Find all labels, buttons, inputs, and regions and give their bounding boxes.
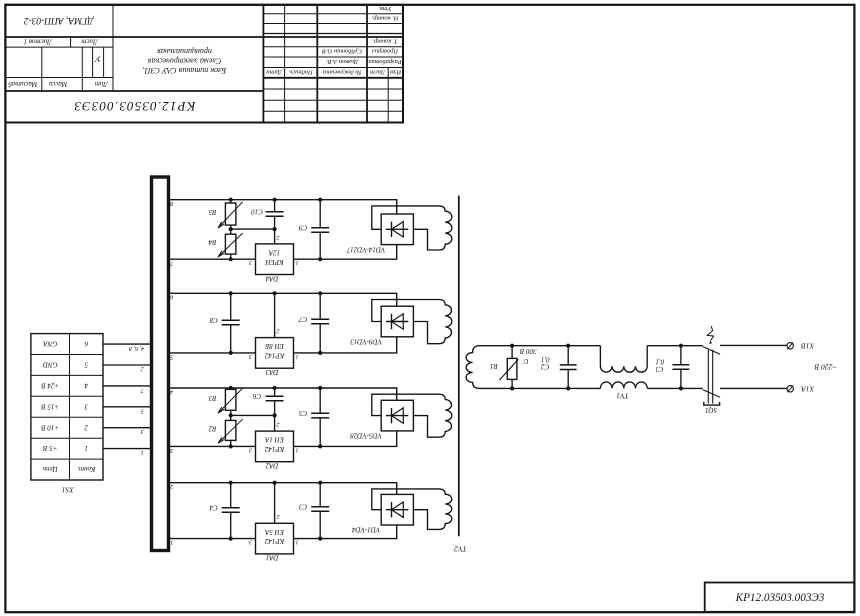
junction divider bottom [229, 444, 233, 448]
secondary winding TV2.1 with bridge AC wires [372, 489, 452, 530]
svg-text:GND: GND [43, 361, 58, 369]
capacitor C3 with leads [311, 483, 329, 539]
bus (wire harness) [152, 177, 169, 551]
svg-text:3: 3 [249, 538, 253, 544]
svg-text:Листов 1: Листов 1 [24, 38, 53, 46]
wire rail 3 (channel 2 bottom) right segment [294, 431, 397, 447]
wire rail 8 (channel 4 top) [169, 200, 397, 214]
svg-text:1: 1 [296, 353, 299, 359]
svg-text:КР12.03503.003Э3: КР12.03503.003Э3 [735, 592, 825, 604]
bridge rectifier VD1-VD4 [381, 494, 413, 525]
svg-text:VD14-VD217: VD14-VD217 [346, 245, 385, 253]
trimmer resistor R3 [218, 388, 243, 413]
svg-text:Лист: Лист [81, 38, 98, 46]
svg-text:5: 5 [170, 353, 173, 360]
svg-text:ДГМА, АПП-03-2: ДГМА, АПП-03-2 [23, 15, 94, 25]
svg-text:3: 3 [249, 259, 253, 265]
varistor R1 [499, 346, 518, 389]
svg-text:КР142: КР142 [264, 537, 285, 545]
svg-text:XS1: XS1 [62, 485, 75, 494]
svg-text:Утв.: Утв. [378, 5, 392, 12]
capacitor C8 with leads [222, 293, 240, 353]
wire primary bottom (segment 2) [647, 387, 703, 389]
svg-text:3: 3 [170, 447, 174, 454]
voltage regulator DA4 [256, 244, 294, 275]
svg-text:Субботин О.В: Субботин О.В [322, 48, 362, 55]
connector XS1 table [31, 334, 103, 480]
secondary winding TV2.3 with bridge AC wires [372, 300, 452, 344]
svg-text:2: 2 [277, 328, 280, 334]
svg-text:Разработал: Разработал [368, 58, 402, 65]
voltage regulator DA2 [256, 431, 294, 462]
svg-text:7: 7 [140, 386, 144, 393]
svg-text:3: 3 [84, 402, 89, 410]
svg-text:C6: C6 [252, 392, 261, 400]
junction node pin2 [273, 413, 277, 417]
svg-text:R3: R3 [208, 394, 217, 402]
bridge rectifier VD14-VD217 [381, 214, 413, 245]
voltage regulator DA1 [256, 523, 294, 554]
terminal X1A [787, 385, 793, 392]
svg-text:Дьякон А.В.: Дьякон А.В. [326, 58, 360, 65]
capacitor C4 with leads [222, 483, 240, 539]
svg-text:DA3: DA3 [265, 368, 279, 376]
svg-text:C3: C3 [298, 503, 307, 511]
junction C7 top [318, 291, 322, 295]
svg-text:Дата: Дата [266, 68, 282, 75]
capacitor C7 with leads [311, 293, 329, 353]
capacitor C1 [673, 346, 690, 389]
svg-text:Блок питания САУ СЗП,: Блок питания САУ СЗП, [143, 66, 227, 75]
svg-text:КРЕН: КРЕН [264, 258, 284, 266]
wire primary top to switch (segment 1) [479, 345, 601, 347]
svg-text:3: 3 [249, 446, 253, 452]
wire rail 7 (channel 4 bottom) left segment [169, 258, 256, 260]
svg-text:Масштаб: Масштаб [8, 80, 39, 87]
junction pin2 top [273, 481, 277, 485]
svg-text:№ документа: № документа [323, 68, 362, 75]
svg-text:R1: R1 [490, 362, 499, 370]
wire XS1 to bus (net 1) [103, 448, 152, 450]
switch SQ1 [703, 347, 720, 406]
svg-text:C5: C5 [298, 409, 307, 417]
primary winding TV2 [466, 346, 479, 389]
svg-text:5: 5 [141, 407, 144, 414]
svg-text:Лит: Лит [95, 80, 109, 87]
svg-text:+10 В: +10 В [41, 423, 59, 431]
pin 2 wire of DA4 with C10 leads [274, 200, 276, 244]
svg-text:TV1: TV1 [616, 392, 629, 401]
svg-text:ЕН 8Б: ЕН 8Б [265, 342, 285, 350]
svg-text:У: У [94, 55, 101, 65]
capacitor C2 [560, 346, 577, 389]
node wire divider-to-pin2 [231, 228, 275, 230]
secondary winding TV2.2 with bridge AC wires [372, 394, 452, 437]
junction C3 bottom [318, 537, 322, 541]
wire rail 1 (channel 1 bottom) right segment [294, 525, 397, 539]
svg-text:КР12.03503.003Э3: КР12.03503.003Э3 [73, 99, 196, 114]
svg-text:Цепь: Цепь [43, 465, 59, 473]
wire XS1 to bus (net 5) [103, 406, 152, 408]
svg-text:6: 6 [84, 340, 88, 348]
svg-text:2: 2 [141, 366, 144, 373]
junction C8 top [229, 291, 233, 295]
junction C4 bottom [229, 537, 233, 541]
svg-text:SQ1: SQ1 [705, 406, 717, 414]
stamp box [705, 583, 855, 612]
junction C5 top [318, 386, 322, 390]
trimmer resistor R2 [218, 419, 243, 443]
svg-text:+5 В: +5 В [42, 444, 57, 452]
bridge rectifier VD5-VD28 [381, 400, 413, 431]
junction pin2 top [273, 291, 277, 295]
junction C6 top [273, 386, 277, 390]
junction C9 bottom [318, 257, 322, 261]
junction R1 bottom [510, 386, 514, 390]
svg-text:C9: C9 [298, 224, 307, 232]
svg-text:2: 2 [170, 483, 173, 490]
svg-text:X1A: X1A [801, 384, 815, 393]
svg-text:2: 2 [277, 513, 280, 519]
wire divider chain [230, 200, 232, 260]
junction C7 bottom [318, 351, 322, 355]
junction divider top [229, 386, 233, 390]
svg-text:Т. контр.: Т. контр. [372, 38, 398, 45]
junction C2 bottom [566, 386, 570, 390]
capacitor C10 [266, 212, 284, 217]
junction C5 bottom [318, 444, 322, 448]
svg-text:R5: R5 [208, 208, 217, 216]
svg-text:ЕН 5А: ЕН 5А [264, 528, 285, 536]
svg-text:1: 1 [296, 259, 299, 265]
junction C1 top [679, 344, 683, 348]
svg-text:300 В: 300 В [519, 347, 537, 355]
svg-text:2: 2 [277, 234, 280, 240]
svg-text:R2: R2 [208, 425, 217, 433]
svg-text:2: 2 [277, 421, 280, 427]
svg-text:Подпись: Подпись [289, 68, 314, 75]
svg-text:КР142: КР142 [264, 445, 285, 453]
svg-text:C7: C7 [298, 315, 307, 323]
wire rail 3 (channel 2 bottom) left segment [169, 445, 256, 447]
junction C3 top [318, 481, 322, 485]
junction C9 top [318, 198, 322, 202]
svg-text:Конт.: Конт. [77, 465, 96, 473]
capacitor C6 [266, 396, 284, 401]
pin 2 wire of DA2 with C6 leads [274, 388, 276, 431]
svg-text:~220 В: ~220 В [814, 362, 836, 371]
svg-text:VD5-VD28: VD5-VD28 [350, 432, 382, 440]
wire rail 1 (channel 1 bottom) left segment [169, 538, 256, 540]
junction node divider [229, 413, 233, 417]
svg-text:DA2: DA2 [265, 462, 279, 470]
svg-text:Схема электрическая: Схема электрическая [148, 57, 222, 66]
junction divider bottom [229, 257, 233, 261]
title block text [8, 5, 403, 114]
svg-text:4, 6, 8: 4, 6, 8 [128, 345, 144, 352]
wire SQ1 to X1B [720, 344, 787, 346]
wire SQ1 to X1A [720, 387, 787, 389]
bridge rectifier VD9-VD13 [381, 306, 413, 337]
terminal X1B [787, 342, 793, 349]
svg-text:U: U [523, 357, 529, 365]
svg-text:1: 1 [141, 449, 144, 456]
svg-text:GNA: GNA [42, 340, 57, 348]
pin 2 wire of DA3 [274, 293, 276, 337]
transformer TV2 core [458, 196, 460, 537]
junction C4 top [229, 481, 233, 485]
wire rail 5 (channel 3 bottom) right segment [294, 337, 397, 353]
svg-text:4: 4 [84, 382, 88, 390]
wire XS1 to bus (net 7) [103, 385, 152, 387]
svg-text:1: 1 [84, 444, 88, 452]
junction C2 top [566, 344, 570, 348]
svg-text:1: 1 [296, 538, 299, 544]
junction node pin2 [273, 227, 277, 231]
svg-text:3: 3 [249, 353, 253, 359]
svg-text:Лист: Лист [370, 68, 387, 75]
wire primary top to switch (segment 2) [647, 345, 703, 347]
choke TV1 upper winding [600, 346, 647, 373]
secondary winding TV2.4 with bridge AC wires [372, 206, 452, 250]
junction node divider [229, 227, 233, 231]
actuator arrow of SQ1 [707, 326, 713, 344]
svg-text:C8: C8 [209, 316, 218, 324]
svg-text:1: 1 [296, 446, 299, 452]
svg-text:R4: R4 [208, 238, 217, 246]
choke TV1 lower winding [600, 382, 647, 389]
junction divider top [229, 198, 233, 202]
wire rail 6 (channel 3 top) [169, 293, 397, 306]
svg-text:Изм: Изм [390, 68, 402, 75]
svg-text:DA4: DA4 [265, 274, 279, 282]
wire divider chain [230, 388, 232, 446]
junction C10 top [273, 198, 277, 202]
svg-text:Н. контр.: Н. контр. [371, 14, 399, 21]
svg-text:3: 3 [141, 428, 145, 435]
svg-text:TV2: TV2 [454, 544, 467, 553]
svg-text:ЕН 1А: ЕН 1А [264, 436, 285, 444]
trimmer resistor R4 [218, 233, 243, 257]
svg-text:Масса: Масса [48, 80, 68, 87]
wire primary bottom (segment 1) [479, 387, 601, 389]
capacitor C9 with leads [311, 200, 329, 260]
voltage regulator DA3 [256, 338, 294, 369]
svg-text:КР142: КР142 [264, 352, 285, 360]
svg-text:5: 5 [84, 361, 88, 369]
wire XS1 to bus (net 4, 6, 8) [103, 343, 152, 345]
svg-text:принципиальная: принципиальная [157, 47, 212, 56]
svg-text:1: 1 [170, 539, 173, 546]
node wire divider-to-pin2 [231, 414, 275, 416]
svg-text:12А: 12А [268, 249, 280, 257]
svg-text:4: 4 [170, 388, 173, 395]
wire XS1 to bus (net 2) [103, 364, 152, 366]
svg-text:VD1-VD4: VD1-VD4 [352, 526, 380, 534]
svg-text:DA1: DA1 [266, 554, 280, 562]
wire rail 2 (channel 1 top) [169, 483, 397, 495]
wire XS1 to bus (net 3) [103, 427, 152, 429]
svg-text:C10: C10 [251, 208, 263, 216]
svg-text:2: 2 [84, 423, 88, 431]
trimmer resistor R5 [218, 202, 243, 228]
capacitor C5 with leads [311, 388, 329, 446]
svg-text:+15 В: +15 В [41, 402, 59, 410]
svg-text:Проверил: Проверил [372, 48, 399, 55]
svg-text:0,1: 0,1 [541, 356, 550, 364]
junction C1 bottom [679, 386, 683, 390]
junction C8 bottom [229, 351, 233, 355]
svg-text:0,1: 0,1 [656, 358, 665, 366]
wire rail 5 (channel 3 bottom) left segment [169, 352, 256, 354]
svg-text:VD9-VD13: VD9-VD13 [350, 338, 382, 346]
title block grid [5, 5, 403, 123]
svg-text:+24 В: +24 В [41, 382, 59, 390]
pin 2 wire of DA1 [274, 483, 276, 524]
svg-text:X1B: X1B [801, 341, 815, 350]
wire rail 7 (channel 4 bottom) right segment [294, 245, 397, 260]
junction R1 top [510, 344, 514, 348]
wire rail 4 (channel 2 top) [169, 388, 397, 400]
svg-text:C4: C4 [209, 504, 218, 512]
